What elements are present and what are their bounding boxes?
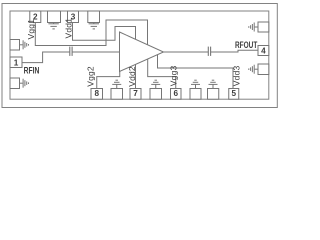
pin 3 pad (68, 11, 79, 23)
ground bottom C (inverted) (191, 80, 200, 88)
ground pad right lower (258, 64, 269, 75)
svg-text:7: 7 (133, 89, 138, 98)
svg-text:1: 1 (14, 58, 19, 67)
wire Vdd1 net (73, 23, 136, 41)
ground pad bottom B (150, 89, 162, 100)
pin 2 pad (30, 11, 41, 23)
pin 7 pad (130, 89, 141, 100)
ground pad bottom D (208, 89, 219, 100)
ground bottom B (inverted) (151, 80, 160, 88)
ground right upper (sideways) (249, 23, 258, 32)
pin 6 pad (171, 89, 182, 100)
wire Vgg3 net (148, 59, 176, 89)
svg-text:6: 6 (173, 89, 178, 98)
svg-text:Vgg2: Vgg2 (86, 66, 96, 87)
border frame (2, 4, 277, 108)
wire Vgg1 net (35, 20, 147, 46)
svg-text:Vdd3: Vdd3 (232, 65, 242, 86)
capacitor C_out (208, 47, 210, 56)
ground pad top B (88, 11, 100, 23)
capacitor C_in (70, 47, 72, 56)
package outline (10, 11, 269, 99)
wire RFOUT from amp (164, 51, 209, 53)
svg-text:RFOUT: RFOUT (235, 40, 258, 50)
ground top B (89, 23, 99, 29)
ground bottom A (inverted) (112, 80, 121, 88)
pin 5 pad (229, 89, 239, 100)
svg-text:5: 5 (231, 89, 236, 98)
ground pad left lower (10, 78, 20, 89)
wire Vdd2 net (135, 65, 137, 89)
ground left lower (sideways) (20, 79, 29, 88)
ground pad left upper (10, 40, 20, 51)
svg-text:Vgg1: Vgg1 (26, 19, 36, 40)
wire cap to pin 4 (211, 50, 258, 52)
svg-text:Vdd1: Vdd1 (63, 18, 73, 39)
ground pad bottom A (111, 89, 123, 100)
ground bottom D (inverted) (209, 80, 218, 88)
svg-text:4: 4 (261, 47, 266, 56)
svg-text:Vdd2: Vdd2 (127, 66, 137, 87)
ground pad top A (48, 11, 61, 23)
wire Vdd3 net (158, 55, 234, 89)
pin 4 pad (258, 46, 269, 56)
wire RFIN input (22, 52, 70, 63)
wire Vgg2 net (97, 72, 120, 89)
svg-text:Vgg3: Vgg3 (168, 65, 178, 86)
wire input to amp (72, 51, 119, 53)
ground pad bottom C (190, 89, 201, 100)
op-amp U1 (120, 32, 164, 72)
ground pad right upper (258, 22, 269, 32)
svg-text:RFIN: RFIN (24, 66, 40, 76)
svg-text:8: 8 (94, 89, 99, 98)
pin 1 pad (10, 57, 22, 68)
ground top A (48, 23, 58, 29)
ground left upper (sideways) (20, 40, 29, 49)
pin 8 pad (91, 89, 103, 100)
ground right lower (sideways) (249, 65, 258, 74)
